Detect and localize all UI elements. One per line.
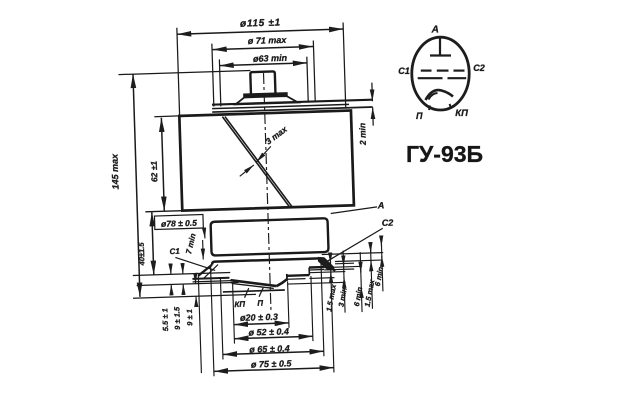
svg-text:ø 75 ± 0.5: ø 75 ± 0.5 (251, 358, 293, 369)
svg-text:С1: С1 (398, 66, 410, 76)
svg-text:3 max: 3 max (264, 123, 290, 146)
svg-text:5.5 ± 1: 5.5 ± 1 (160, 308, 170, 331)
svg-text:ø 71 max: ø 71 max (248, 35, 288, 46)
svg-text:C2: C2 (382, 218, 394, 228)
svg-text:40±1.5: 40±1.5 (137, 242, 147, 267)
svg-text:ø63 min: ø63 min (253, 53, 288, 64)
svg-text:C1: C1 (169, 247, 180, 256)
svg-text:6 min: 6 min (373, 266, 385, 287)
svg-text:1.5 max: 1.5 max (324, 283, 338, 312)
svg-text:9 ± 1.5: 9 ± 1.5 (172, 306, 182, 330)
svg-text:ø 52 ± 0.4: ø 52 ± 0.4 (248, 326, 289, 337)
svg-text:П: П (416, 111, 423, 121)
svg-text:A: A (377, 200, 385, 210)
svg-text:А: А (431, 25, 439, 36)
svg-text:7 min: 7 min (184, 232, 198, 255)
svg-text:ГУ-93Б: ГУ-93Б (406, 141, 483, 167)
svg-text:П: П (257, 299, 263, 308)
svg-text:КП: КП (234, 300, 245, 309)
svg-text:3 min: 3 min (336, 286, 348, 307)
svg-text:ø20 ± 0.3: ø20 ± 0.3 (240, 312, 278, 323)
svg-text:ø78 ± 0.5: ø78 ± 0.5 (161, 218, 197, 229)
svg-text:ø 65 ± 0.4: ø 65 ± 0.4 (249, 343, 290, 354)
svg-text:КП: КП (455, 108, 468, 119)
svg-text:ø115 ±1: ø115 ±1 (240, 17, 281, 29)
svg-text:2 min: 2 min (357, 123, 368, 147)
svg-text:9 ± 1: 9 ± 1 (185, 309, 195, 326)
svg-text:62 ±1: 62 ±1 (149, 161, 160, 183)
svg-text:С2: С2 (473, 63, 485, 73)
svg-text:145 max: 145 max (109, 153, 120, 190)
